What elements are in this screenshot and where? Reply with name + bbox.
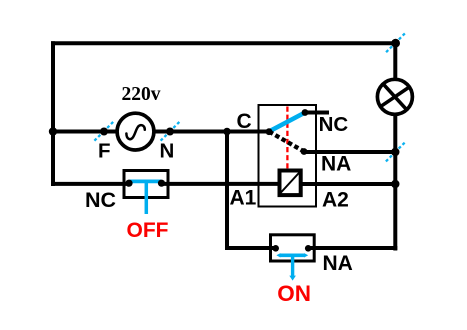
junction dot A2-right <box>391 180 399 188</box>
svg-text:NA: NA <box>321 153 351 176</box>
wire top <box>51 41 396 45</box>
junction dot top-right corner <box>391 39 400 48</box>
svg-text:OFF: OFF <box>127 219 169 242</box>
wire OFF row right to coil A1 <box>161 182 280 186</box>
AC source V1 circle <box>117 113 154 150</box>
wire ON row left <box>225 246 277 250</box>
wire NA contact to right vertical <box>304 150 397 154</box>
OFF actuator bar (blue) <box>130 180 162 184</box>
AC source sine symbol <box>126 125 144 139</box>
pushbutton ON box <box>271 235 315 261</box>
probe tick at NA-right <box>386 143 405 162</box>
ON actuator bar (blue double arrow) <box>276 253 308 257</box>
relay NC contact dot <box>302 109 309 116</box>
relay K1 outline <box>259 105 317 207</box>
wire OFF row left <box>52 182 130 186</box>
relay armature guide (red dashed) <box>286 107 288 169</box>
svg-text:NA: NA <box>323 252 353 275</box>
relay contact C-NA (dashed) <box>269 132 304 152</box>
wire left vertical <box>51 41 55 186</box>
OFF contact dot right <box>158 180 165 187</box>
OFF contact dot left <box>125 180 132 187</box>
relay coil box <box>280 171 301 196</box>
ON contact dot left <box>272 245 279 252</box>
wire lamp bottom / right vertical <box>393 114 397 251</box>
svg-text:C: C <box>237 110 252 133</box>
probe tick at N <box>161 122 180 141</box>
svg-text:NC: NC <box>319 113 349 136</box>
relay contact C-NC (closed, blue) <box>269 113 305 132</box>
junction dot N <box>166 128 174 136</box>
junction dot branch <box>223 128 231 136</box>
OFF actuator stem (blue) <box>145 182 149 214</box>
svg-text:F: F <box>98 140 111 163</box>
ON contact dot right <box>305 245 312 252</box>
svg-text:A2: A2 <box>322 188 349 211</box>
relay pivot dot C <box>266 128 273 135</box>
wire branch vertical <box>225 130 229 251</box>
svg-text:A1: A1 <box>230 187 257 210</box>
svg-text:ON: ON <box>277 281 311 306</box>
junction dot left-source <box>49 127 57 135</box>
probe tick at F <box>94 122 113 141</box>
relay NA contact dot <box>301 148 308 155</box>
junction dot NA-right <box>391 148 399 156</box>
svg-text:220v: 220v <box>122 84 161 105</box>
ON actuator stem (blue, arrow down) <box>289 255 296 280</box>
wire ON row right <box>308 246 398 250</box>
probe tick at top-right <box>386 33 405 52</box>
wire NC stub <box>305 111 329 115</box>
wire source row <box>53 130 269 134</box>
wire A2 to right vertical <box>301 182 397 186</box>
pushbutton OFF box <box>124 171 168 198</box>
svg-text:N: N <box>160 140 175 163</box>
lamp L1 <box>377 79 412 114</box>
wire lamp top <box>393 42 397 81</box>
svg-text:NC: NC <box>85 188 116 212</box>
junction dot F <box>100 128 108 136</box>
